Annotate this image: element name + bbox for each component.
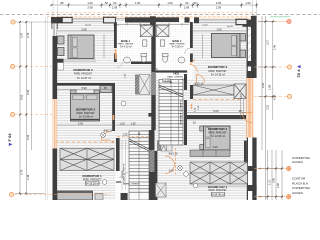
svg-text:DORMITOR 1: DORMITOR 1 (208, 185, 228, 189)
svg-text:S= 4.10 m²: S= 4.10 m² (120, 46, 132, 49)
wardrobe dormitor3 long (193, 85, 234, 95)
lower right hol wall (153, 151, 158, 200)
staircase upper (right unit) (159, 80, 183, 146)
top dimension chain (52, 4, 257, 6)
sink baie1 right (178, 57, 185, 63)
svg-text:1.05: 1.05 (119, 121, 125, 125)
room label dormitor3 top-right (208, 65, 228, 76)
left wall window upper gap (52, 23, 57, 36)
green mark right top (270, 16, 290, 18)
svg-text:4.35: 4.35 (273, 94, 277, 100)
svg-text:1.00: 1.00 (212, 145, 218, 149)
svg-text:.95: .95 (103, 86, 107, 90)
annotation contur placa (292, 177, 311, 195)
left baie south wall (131, 62, 152, 65)
right wall pier 1 (243, 22, 252, 27)
top wall pier right (247, 20, 252, 26)
svg-text:DORMITOR 2: DORMITOR 2 (73, 68, 93, 72)
gresie floor baie right (155, 22, 191, 62)
bed dormitor2 mid-left (71, 90, 100, 121)
desk top-left room (100, 86, 112, 93)
room label dormitor1 bottom-right (194, 185, 247, 197)
svg-text:2.08: 2.08 (112, 5, 118, 9)
party wall door post mid (148, 113, 155, 117)
orange dashed line dorm3 (193, 99, 240, 101)
svg-text:80/2.10: 80/2.10 (104, 129, 113, 133)
svg-text:F 04: F 04 (7, 133, 12, 142)
svg-text:PARD. GRESIE: PARD. GRESIE (124, 183, 140, 186)
corner extension lines (52, 0, 54, 17)
orange dashed line left rooms (55, 141, 112, 143)
top wall framed window D (236, 19, 247, 24)
right dimension texts (261, 39, 280, 188)
svg-text:1.95: 1.95 (130, 121, 136, 125)
axis circle left bottom (9, 192, 110, 196)
left interior horizontal wall (57, 83, 115, 86)
svg-text:2.70: 2.70 (20, 169, 24, 175)
interior dim line top rooms (57, 30, 114, 32)
left dimension texts (20, 32, 30, 180)
right wall niche lines lower (244, 141, 247, 162)
svg-text:ACCES: ACCES (292, 191, 303, 195)
door arc mid-right corner (242, 113, 252, 123)
svg-text:DORMITOR 1: DORMITOR 1 (82, 174, 102, 178)
svg-text:S= 13.20 m²: S= 13.20 m² (85, 181, 99, 185)
right exterior wall outer band upper (251, 16, 257, 78)
svg-text:2.08: 2.08 (184, 5, 190, 9)
svg-text:4.50: 4.50 (26, 89, 30, 95)
bed dormitor2 mid-right (190, 126, 230, 157)
room label baie1 left (118, 39, 134, 49)
right wall long orange window (246, 78, 253, 138)
svg-text:HOL: HOL (116, 180, 122, 184)
svg-text:3.27: 3.27 (265, 39, 269, 45)
svg-text:HOL: HOL (173, 71, 179, 75)
shaft X-box bottom party wall (156, 183, 167, 197)
orange wall marks near baie left (115, 49, 117, 59)
sink baie1 left (124, 57, 131, 63)
axis circle left 2 (10, 64, 52, 68)
svg-text:.60: .60 (113, 1, 117, 5)
door arc baie->dorm3 upper (190, 65, 198, 73)
axis circle right 4 (254, 166, 291, 170)
svg-text:.88: .88 (60, 1, 64, 5)
svg-text:S=14.36 m²: S=14.36 m² (211, 193, 225, 197)
central party wall lower (149, 130, 155, 200)
svg-text:2.05: 2.05 (216, 1, 222, 5)
svg-text:5.93: 5.93 (81, 86, 87, 90)
svg-text:PARD. GRESIE: PARD. GRESIE (167, 75, 183, 78)
interior vertical dim right room (202, 34, 204, 58)
wardrobe block right (X cells) (190, 162, 248, 184)
svg-text:80/2.10: 80/2.10 (195, 82, 204, 86)
svg-text:1.21: 1.21 (182, 79, 187, 81)
orange door frame mark left interior wall (113, 115, 115, 120)
interior dimension texts (78, 27, 243, 172)
electrical symbols (101, 101, 198, 188)
shower X-box baie1 right (156, 25, 169, 37)
svg-text:2.47: 2.47 (20, 32, 24, 38)
hol label leader (119, 172, 128, 178)
svg-text:1.46: 1.46 (26, 174, 30, 180)
svg-text:1.00: 1.00 (87, 1, 93, 5)
svg-text:.50: .50 (193, 1, 197, 5)
top wall corner block right (253, 16, 257, 26)
party wall hatch overlay upper (151, 72, 155, 95)
right wall cavity ticks (248, 27, 251, 58)
left interior vertical wall (112, 83, 115, 131)
right wall pier 3 (247, 71, 253, 78)
top wall framed window B1 (104, 17, 116, 23)
svg-text:S= 14.97 m²: S= 14.97 m² (77, 76, 91, 80)
top dimension texts (60, 1, 251, 9)
right wall inner face line lower (247, 138, 248, 201)
door post bottom center 2 (145, 193, 152, 200)
svg-text:90/2.10: 90/2.10 (169, 152, 178, 156)
left wall corner block (52, 17, 59, 29)
orange dashed line lower hol (117, 135, 148, 137)
central party wall (151, 22, 155, 130)
orange dashed eaves lines (47, 12, 258, 14)
axis circle left 3 (10, 112, 52, 116)
interior dim line right above wall (186, 112, 246, 114)
svg-text:PARD. PARCHET: PARD. PARCHET (208, 189, 227, 192)
svg-text:1.21: 1.21 (268, 179, 272, 185)
blue label F04 left (7, 133, 12, 146)
svg-text:S= 13.98 m²: S= 13.98 m² (79, 115, 93, 119)
interior vertical dim right wall inside (240, 98, 242, 118)
svg-text:5.08: 5.08 (81, 27, 87, 31)
svg-text:5.93: 5.93 (78, 121, 84, 125)
room label dormitor2 mid-right (208, 127, 228, 149)
axis circle left 1 (11, 20, 52, 24)
svg-text:1.50: 1.50 (168, 169, 174, 173)
stair dim column lower (122, 140, 126, 190)
svg-text:PARD. PARCHET: PARD. PARCHET (208, 132, 227, 135)
axis circle right 1 (258, 19, 291, 23)
svg-text:BAIE 1: BAIE 1 (121, 39, 131, 43)
svg-text:DORMITOR 2: DORMITOR 2 (208, 127, 228, 131)
right stair east wall upper (184, 74, 187, 90)
right wall pier 2 (247, 61, 255, 67)
left eaves line (44, 17, 46, 200)
room label dormitor2 top-left (73, 68, 93, 80)
svg-text:2.70: 2.70 (26, 32, 30, 38)
right wall pier lower 2 (247, 185, 257, 191)
room label baie1 right (169, 39, 185, 49)
svg-text:PARD. PARCHET: PARD. PARCHET (208, 70, 227, 73)
left exterior wall upper (53, 17, 58, 99)
svg-text:PLACA B.A.: PLACA B.A. (292, 181, 309, 185)
svg-text:.60: .60 (185, 1, 189, 5)
top wall long window left (72, 18, 104, 21)
washing machine baie1 right (160, 40, 164, 46)
bed dormitor2 top-left (53, 35, 96, 70)
room label dormitor2 mid-left (76, 107, 96, 118)
svg-text:COBORARE 16 TREPTE: COBORARE 16 TREPTE (180, 100, 183, 125)
blue label F02 right (297, 65, 302, 78)
svg-text:17.6/28: 17.6/28 (122, 170, 124, 178)
top wall long window right (199, 19, 236, 22)
room label hol lower (116, 180, 140, 186)
wardrobe block left (X cells) (60, 148, 114, 170)
svg-text:1.40: 1.40 (273, 44, 277, 50)
svg-text:1.00: 1.00 (216, 27, 222, 31)
svg-text:1.00: 1.00 (167, 1, 173, 5)
svg-text:1.98: 1.98 (268, 84, 272, 90)
svg-text:BAIE 1: BAIE 1 (172, 39, 182, 43)
floor texture interior (57, 22, 247, 200)
svg-text:2.06: 2.06 (261, 82, 265, 88)
interior dim line mid-left (57, 124, 151, 126)
svg-text:DORMITOR 3: DORMITOR 3 (208, 65, 228, 69)
svg-text:2.56: 2.56 (216, 5, 222, 9)
svg-text:hp-20: hp-20 (227, 26, 233, 28)
room label hol upper (163, 71, 187, 82)
party wall hatch overlay lower (149, 150, 155, 172)
small wall tags (85, 24, 233, 29)
svg-text:.50: .50 (104, 1, 108, 5)
dimension tick arrows (19, 4, 283, 198)
gresie floor hol lower (115, 149, 149, 201)
svg-text:PARD. PARCHET: PARD. PARCHET (74, 73, 93, 76)
svg-text:1.05: 1.05 (123, 134, 128, 137)
bed dormitor3 top-right (212, 34, 246, 58)
svg-text:+2.55: +2.55 (163, 79, 170, 82)
door arc mid-left room (102, 132, 111, 141)
right dimension chain upper (261, 16, 263, 150)
right stair east wall lower (184, 100, 187, 145)
door arc baie1 left south (117, 62, 123, 68)
left wall window (orange) (53, 99, 58, 149)
interior dim line left under wall (57, 89, 112, 91)
top wall framed window A2 (58, 17, 72, 22)
svg-text:ACCES: ACCES (292, 160, 303, 164)
svg-text:.95: .95 (238, 109, 242, 113)
right dimension chain lower (267, 150, 269, 200)
svg-text:CONTUR: CONTUR (292, 177, 306, 181)
svg-text:hp-20: hp-20 (85, 25, 91, 27)
bed bottom-left (cut) (57, 191, 93, 200)
svg-text:PARD. PARCHET: PARD. PARCHET (83, 178, 102, 181)
annotation copertina acces (292, 156, 311, 164)
baie1 right east wall (190, 22, 193, 48)
top wall corner block left (51, 17, 58, 23)
top wall segment C dark (155, 17, 179, 22)
svg-text:PARD. PARCHET: PARD. PARCHET (76, 112, 95, 115)
axis circle right 3 (254, 94, 292, 98)
staircase lower (left unit) (129, 131, 149, 200)
toilet baie1 left (141, 54, 147, 63)
right hol north wall (156, 70, 188, 72)
svg-text:4.15: 4.15 (239, 93, 243, 99)
axis circle right 2 (254, 65, 292, 69)
left dimension chain (19, 22, 21, 193)
left exterior wall lower (53, 149, 58, 201)
left lower vertical wall (116, 138, 120, 171)
svg-text:tp-20: tp-20 (203, 24, 209, 27)
svg-text:1.06: 1.06 (245, 1, 251, 5)
gresie floor hol upper (155, 62, 194, 80)
svg-text:2.85: 2.85 (272, 177, 276, 183)
top wall baie window gap (116, 18, 126, 20)
svg-text:F 02: F 02 (297, 70, 302, 79)
svg-text:.15: .15 (192, 121, 196, 125)
gresie floor baie left (117, 22, 152, 62)
svg-text:COPERTINA: COPERTINA (292, 186, 311, 190)
baie1 left west wall (114, 22, 117, 48)
right wall inner face line upper (247, 22, 248, 78)
wardrobe X-box dormitor3 corner (234, 84, 246, 99)
top wall pier C3 (194, 17, 199, 23)
door post bottom center (121, 193, 128, 200)
svg-text:DORMITOR 2: DORMITOR 2 (76, 107, 96, 111)
right interior horizontal wall (186, 115, 247, 119)
svg-text:1.80: 1.80 (276, 182, 280, 188)
svg-text:S= 14.36 m²: S= 14.36 m² (211, 72, 225, 76)
svg-text:5.00: 5.00 (213, 109, 219, 113)
door arcs bottom-right rooms (165, 156, 175, 166)
washing machine baie1 left (143, 40, 147, 46)
svg-text:tp-80: tp-80 (114, 24, 120, 27)
shaft hatch left of party wall (139, 75, 150, 95)
axis circle right 5 (254, 194, 291, 198)
door arc baie1 right (185, 48, 190, 53)
svg-text:S= 5.30 m²: S= 5.30 m² (172, 46, 184, 49)
top wall segment B dark (125, 17, 152, 22)
svg-text:2.32: 2.32 (265, 104, 269, 110)
baie dim tick rows (118, 23, 189, 25)
right wall pier lower 1 (247, 166, 257, 171)
svg-text:tp-20: tp-20 (144, 24, 150, 27)
svg-text:1.00: 1.00 (135, 1, 141, 5)
svg-text:2.08: 2.08 (87, 5, 93, 9)
toilet baie1 right (162, 54, 168, 63)
door arc dormitor3 entry (197, 75, 205, 83)
svg-text:4.52: 4.52 (26, 134, 30, 140)
wall stub right of stairs (190, 85, 193, 99)
top wall pier C2 (185, 17, 190, 22)
right exterior wall outer band lower (252, 138, 256, 201)
shaft lower right of party wall (161, 141, 172, 152)
shower X-box baie1 left (140, 25, 153, 37)
top gray-red dashed line (0, 13, 320, 15)
svg-text:9.02: 9.02 (20, 94, 24, 100)
svg-text:S= 13.96 m²: S= 13.96 m² (211, 134, 225, 138)
party wall top pier (150, 16, 156, 25)
room label dormitor1 bottom-left (82, 174, 102, 185)
interior vertical dim left room (103, 34, 105, 58)
